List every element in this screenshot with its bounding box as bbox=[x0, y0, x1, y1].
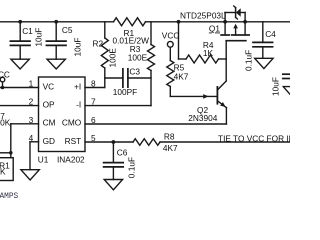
svg-text:AMPS: AMPS bbox=[0, 193, 19, 201]
svg-text:6: 6 bbox=[91, 115, 96, 125]
svg-text:8: 8 bbox=[91, 79, 96, 89]
ground below C6 bbox=[104, 180, 122, 190]
svg-text:+I: +I bbox=[74, 81, 81, 91]
node junction Q1 source/rail bbox=[223, 20, 227, 24]
wire pin4 down bbox=[29, 142, 31, 170]
resistor R8 (4K7 horizontal) bbox=[133, 139, 160, 146]
svg-text:5: 5 bbox=[91, 133, 96, 143]
wire pin3 CM bbox=[11, 123, 39, 125]
power VCC at pin 1 bbox=[0, 77, 5, 87]
capacitor C3 (100PF) bbox=[123, 69, 151, 87]
svg-text:GD: GD bbox=[43, 136, 55, 146]
ground below C1 bbox=[11, 59, 29, 69]
capacitor C6 (0.1uF) bbox=[104, 142, 124, 180]
ground below C4 bbox=[255, 58, 273, 68]
wire pin1 VC bbox=[0, 87, 39, 89]
svg-text:10uF: 10uF bbox=[271, 77, 281, 96]
base current arrow bbox=[203, 94, 208, 99]
svg-text:10uF: 10uF bbox=[33, 28, 43, 47]
svg-text:100PF: 100PF bbox=[113, 87, 137, 97]
svg-text:TIE TO VCC FOR IN: TIE TO VCC FOR IN bbox=[218, 133, 290, 143]
wire R2 to C3 left bbox=[105, 77, 123, 79]
svg-text:C5: C5 bbox=[62, 25, 73, 35]
node junction C1/rail bbox=[18, 20, 22, 24]
wire pin7 to R3 bbox=[85, 105, 151, 107]
svg-text:CMO: CMO bbox=[62, 118, 82, 128]
node junction pin1 bbox=[1, 86, 5, 90]
node junction C5/rail bbox=[54, 20, 58, 24]
wire left edge to pin3 node bbox=[0, 152, 11, 154]
svg-text:0.1uF: 0.1uF bbox=[126, 157, 136, 178]
svg-text:NTD25P03L: NTD25P03L bbox=[180, 11, 226, 21]
svg-text:C1: C1 bbox=[22, 26, 33, 36]
svg-text:7: 7 bbox=[91, 97, 96, 107]
svg-text:10K: 10K bbox=[0, 118, 11, 128]
wire top supply rail left bbox=[0, 21, 114, 23]
wire top supply rail right bbox=[145, 21, 290, 23]
svg-text:10uF: 10uF bbox=[72, 38, 82, 57]
svg-text:U1: U1 bbox=[38, 155, 49, 165]
svg-text:C3: C3 bbox=[129, 66, 140, 76]
svg-text:4: 4 bbox=[29, 133, 34, 143]
svg-text:CM: CM bbox=[43, 118, 56, 128]
ground below edge capacitor (clipped) bbox=[283, 87, 290, 95]
svg-text:4K7: 4K7 bbox=[163, 143, 178, 153]
svg-text:VCC: VCC bbox=[162, 31, 180, 41]
svg-text:1K: 1K bbox=[0, 167, 6, 177]
node junction R4/rail bbox=[177, 20, 181, 24]
svg-text:100E: 100E bbox=[107, 48, 117, 68]
svg-text:R8: R8 bbox=[164, 132, 175, 142]
transistor Q2 NPN 2N3904 bbox=[217, 81, 226, 124]
wire pin5 RST bbox=[85, 141, 133, 143]
svg-text:2N3904: 2N3904 bbox=[188, 113, 217, 123]
svg-text:3: 3 bbox=[29, 115, 34, 125]
resistor R2 (100E vertical) bbox=[101, 22, 108, 88]
resistor R1 box (clipped at left edge) bbox=[0, 158, 13, 181]
svg-text:C4: C4 bbox=[265, 29, 276, 39]
wire R5 to Q2 base bbox=[170, 95, 216, 97]
svg-text:C6: C6 bbox=[117, 148, 128, 158]
svg-text:100E: 100E bbox=[128, 53, 148, 63]
wire pin2 OP bbox=[0, 105, 39, 107]
svg-text:0.1uF: 0.1uF bbox=[244, 50, 254, 71]
svg-text:1: 1 bbox=[29, 79, 34, 89]
svg-text:RST: RST bbox=[65, 136, 82, 146]
resistor R4 (1K horizontal) bbox=[179, 22, 227, 63]
resistor R5 (4K7 vertical) bbox=[167, 61, 174, 97]
svg-text:Q1: Q1 bbox=[209, 24, 220, 34]
svg-text:-I: -I bbox=[76, 99, 81, 109]
wire pin4 GD bbox=[30, 141, 39, 143]
wire R8 to right edge bbox=[160, 141, 290, 143]
svg-text:VC: VC bbox=[43, 81, 55, 91]
svg-text:4K7: 4K7 bbox=[174, 72, 189, 82]
svg-text:1K: 1K bbox=[203, 48, 214, 58]
svg-text:VCC: VCC bbox=[0, 69, 10, 79]
resistor R1 (0.01E/2W shunt, inline on rail) bbox=[114, 18, 146, 26]
wire pin6 CMO to Q2 emitter bbox=[85, 123, 226, 125]
resistor R3 (100E vertical) bbox=[148, 22, 155, 106]
op-amp U1 INA202 body bbox=[39, 77, 86, 152]
power VCC node bbox=[167, 41, 173, 60]
transistor Q1 PMOS NTD25P03L bbox=[221, 6, 249, 41]
ground below pin4 bbox=[21, 170, 39, 180]
svg-text:OP: OP bbox=[43, 99, 55, 109]
capacitor C5 bbox=[46, 22, 66, 59]
svg-text:R2: R2 bbox=[93, 39, 104, 49]
node junction C6 bbox=[112, 140, 116, 144]
wire pin8 to R2 bbox=[85, 87, 105, 89]
svg-text:2: 2 bbox=[29, 97, 34, 107]
wire Q1 gate / R4 / Q2 collector node bbox=[225, 41, 227, 81]
node junction Q1 drain/rail bbox=[243, 20, 247, 24]
capacitor C1 bbox=[10, 22, 30, 59]
wire pin3 down to R1 box bbox=[10, 124, 12, 158]
svg-text:INA202: INA202 bbox=[57, 155, 85, 165]
ground below C5 bbox=[47, 59, 65, 69]
node junction pin3/left wire bbox=[9, 151, 13, 155]
capacitor C4 (0.1uF) bbox=[253, 22, 273, 59]
capacitor C2 (10uF, clipped at right edge) bbox=[283, 74, 290, 78]
